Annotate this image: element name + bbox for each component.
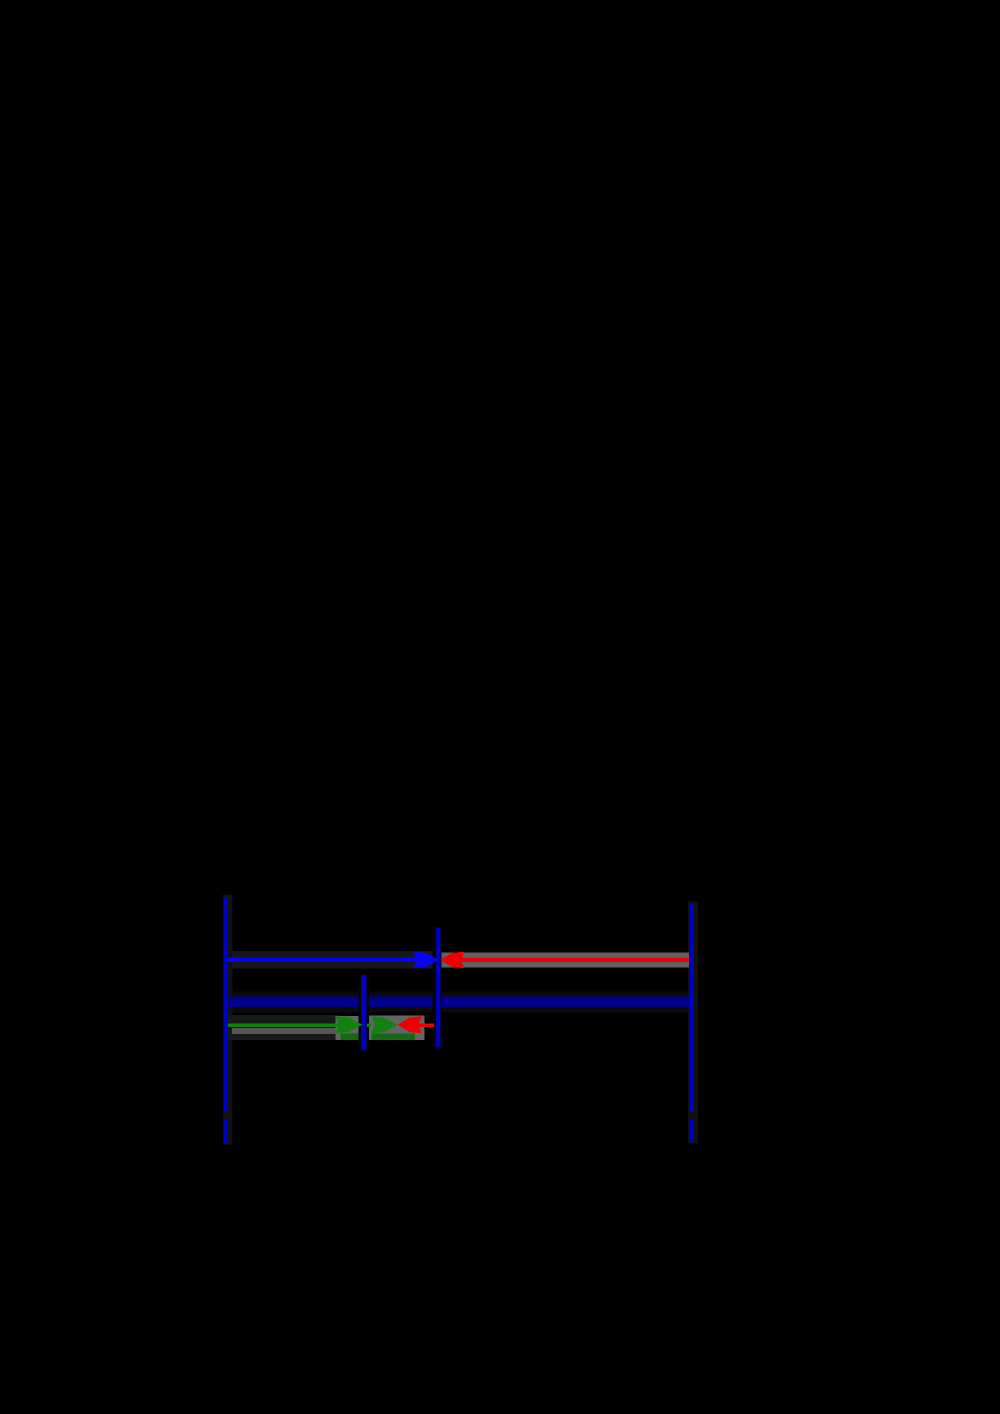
gray strip under green tail: [232, 1028, 340, 1034]
glow of left mirror line: [223, 895, 233, 1145]
glow of right mirror line: [688, 901, 698, 1143]
left mirror line upper segment: [224, 897, 228, 1112]
gray glow band of upper red arrow: [440, 952, 689, 967]
right mirror line lower segment: [689, 1120, 694, 1142]
green dash between heads: [367, 1023, 371, 1027]
green arrowhead 1: [335, 1016, 362, 1033]
glow band of blue intracavity arrow: [228, 951, 439, 969]
upper red arrowhead (leftward): [440, 952, 464, 968]
right mirror line upper segment: [689, 904, 694, 1112]
black outline of middle-left vertical line: [359, 975, 369, 1050]
upper red arrow tail line: [460, 958, 689, 962]
middle-left vertical line: [361, 975, 367, 1050]
dark glow box of green arrow tail: [228, 1015, 340, 1040]
dark green thick bar segment right: [372, 1033, 415, 1040]
black outline of middle-right vertical line: [432, 928, 441, 1048]
gray glow box around green arrowhead 1: [335, 1016, 363, 1040]
blue arrowhead: [413, 952, 438, 968]
waveguide bar: [229, 997, 689, 1008]
left mirror line lower segment: [224, 1120, 228, 1144]
green arrow tail line: [228, 1023, 360, 1027]
gray glow box around green arrowhead 2 and lower red arrowhead: [368, 1016, 425, 1040]
lower red arrowhead (leftward): [398, 1016, 422, 1033]
blue arrow line (rightward): [228, 958, 416, 963]
dark outline band of waveguide bar: [228, 992, 689, 1013]
green arrowhead 2: [371, 1016, 397, 1033]
lower red arrow tail line: [418, 1023, 434, 1026]
dark green thick bar segment left: [340, 1033, 361, 1040]
middle-right vertical line: [436, 928, 440, 1048]
